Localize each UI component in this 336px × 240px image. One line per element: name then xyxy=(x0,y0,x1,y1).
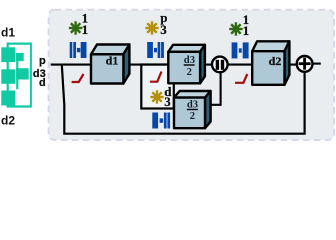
svg-text:d2: d2 xyxy=(269,54,282,68)
interleaver bars xyxy=(216,60,219,70)
svg-text:1: 1 xyxy=(82,22,89,37)
rate annotation A4 (olive asterisk) xyxy=(150,90,163,103)
node d3/2 bottom (box3d) xyxy=(174,91,211,128)
adder circle xyxy=(297,56,313,72)
svg-text:2: 2 xyxy=(187,67,192,78)
adder plus xyxy=(299,62,311,65)
rate annotation A2 (olive asterisk) xyxy=(145,21,158,34)
tree node square S2 xyxy=(1,69,15,84)
svg-text:p: p xyxy=(39,55,46,67)
svg-text:d2: d2 xyxy=(1,113,15,127)
switch S3 (red) xyxy=(235,74,247,83)
svg-text:1: 1 xyxy=(243,23,250,38)
switch S2 (red) xyxy=(150,72,162,82)
main wire xyxy=(51,64,297,66)
node d1 (box3d) xyxy=(91,45,129,84)
buffer icon B1 xyxy=(70,42,87,58)
tree trunk rail xyxy=(7,44,9,107)
tree bottom link xyxy=(7,105,31,107)
interleaver circle xyxy=(212,57,228,73)
tree small square R1 xyxy=(16,53,24,61)
rate annotation A3 (green asterisk) xyxy=(229,22,242,35)
switch S1 (red) xyxy=(72,74,84,82)
svg-text:d: d xyxy=(39,77,46,89)
svg-text:d1: d1 xyxy=(1,25,15,39)
tree node square S1 xyxy=(1,47,15,62)
switch annotation box xyxy=(141,65,174,109)
buffer icon B3 xyxy=(232,42,249,58)
wire bottom box to interleaver xyxy=(205,73,221,105)
output stub wire xyxy=(314,63,321,65)
node d2 (box3d) xyxy=(252,41,289,85)
svg-text:2: 2 xyxy=(190,111,195,122)
buffer icon B2 xyxy=(147,42,164,58)
tree node square S3 xyxy=(1,91,15,106)
tree small square R2 xyxy=(16,68,29,79)
node d3/2 top (box3d) xyxy=(168,45,205,84)
tree child rail xyxy=(16,53,18,89)
svg-text:3: 3 xyxy=(160,22,167,37)
feedback wire to adder xyxy=(62,65,305,134)
dashed container panel xyxy=(49,10,334,140)
tree right bracket xyxy=(30,43,32,108)
rate annotation A1 (green asterisk) xyxy=(69,21,82,34)
tree top link xyxy=(7,42,31,44)
svg-text:d1: d1 xyxy=(106,53,119,67)
svg-text:3: 3 xyxy=(164,94,171,109)
buffer icon B4 xyxy=(152,113,170,129)
